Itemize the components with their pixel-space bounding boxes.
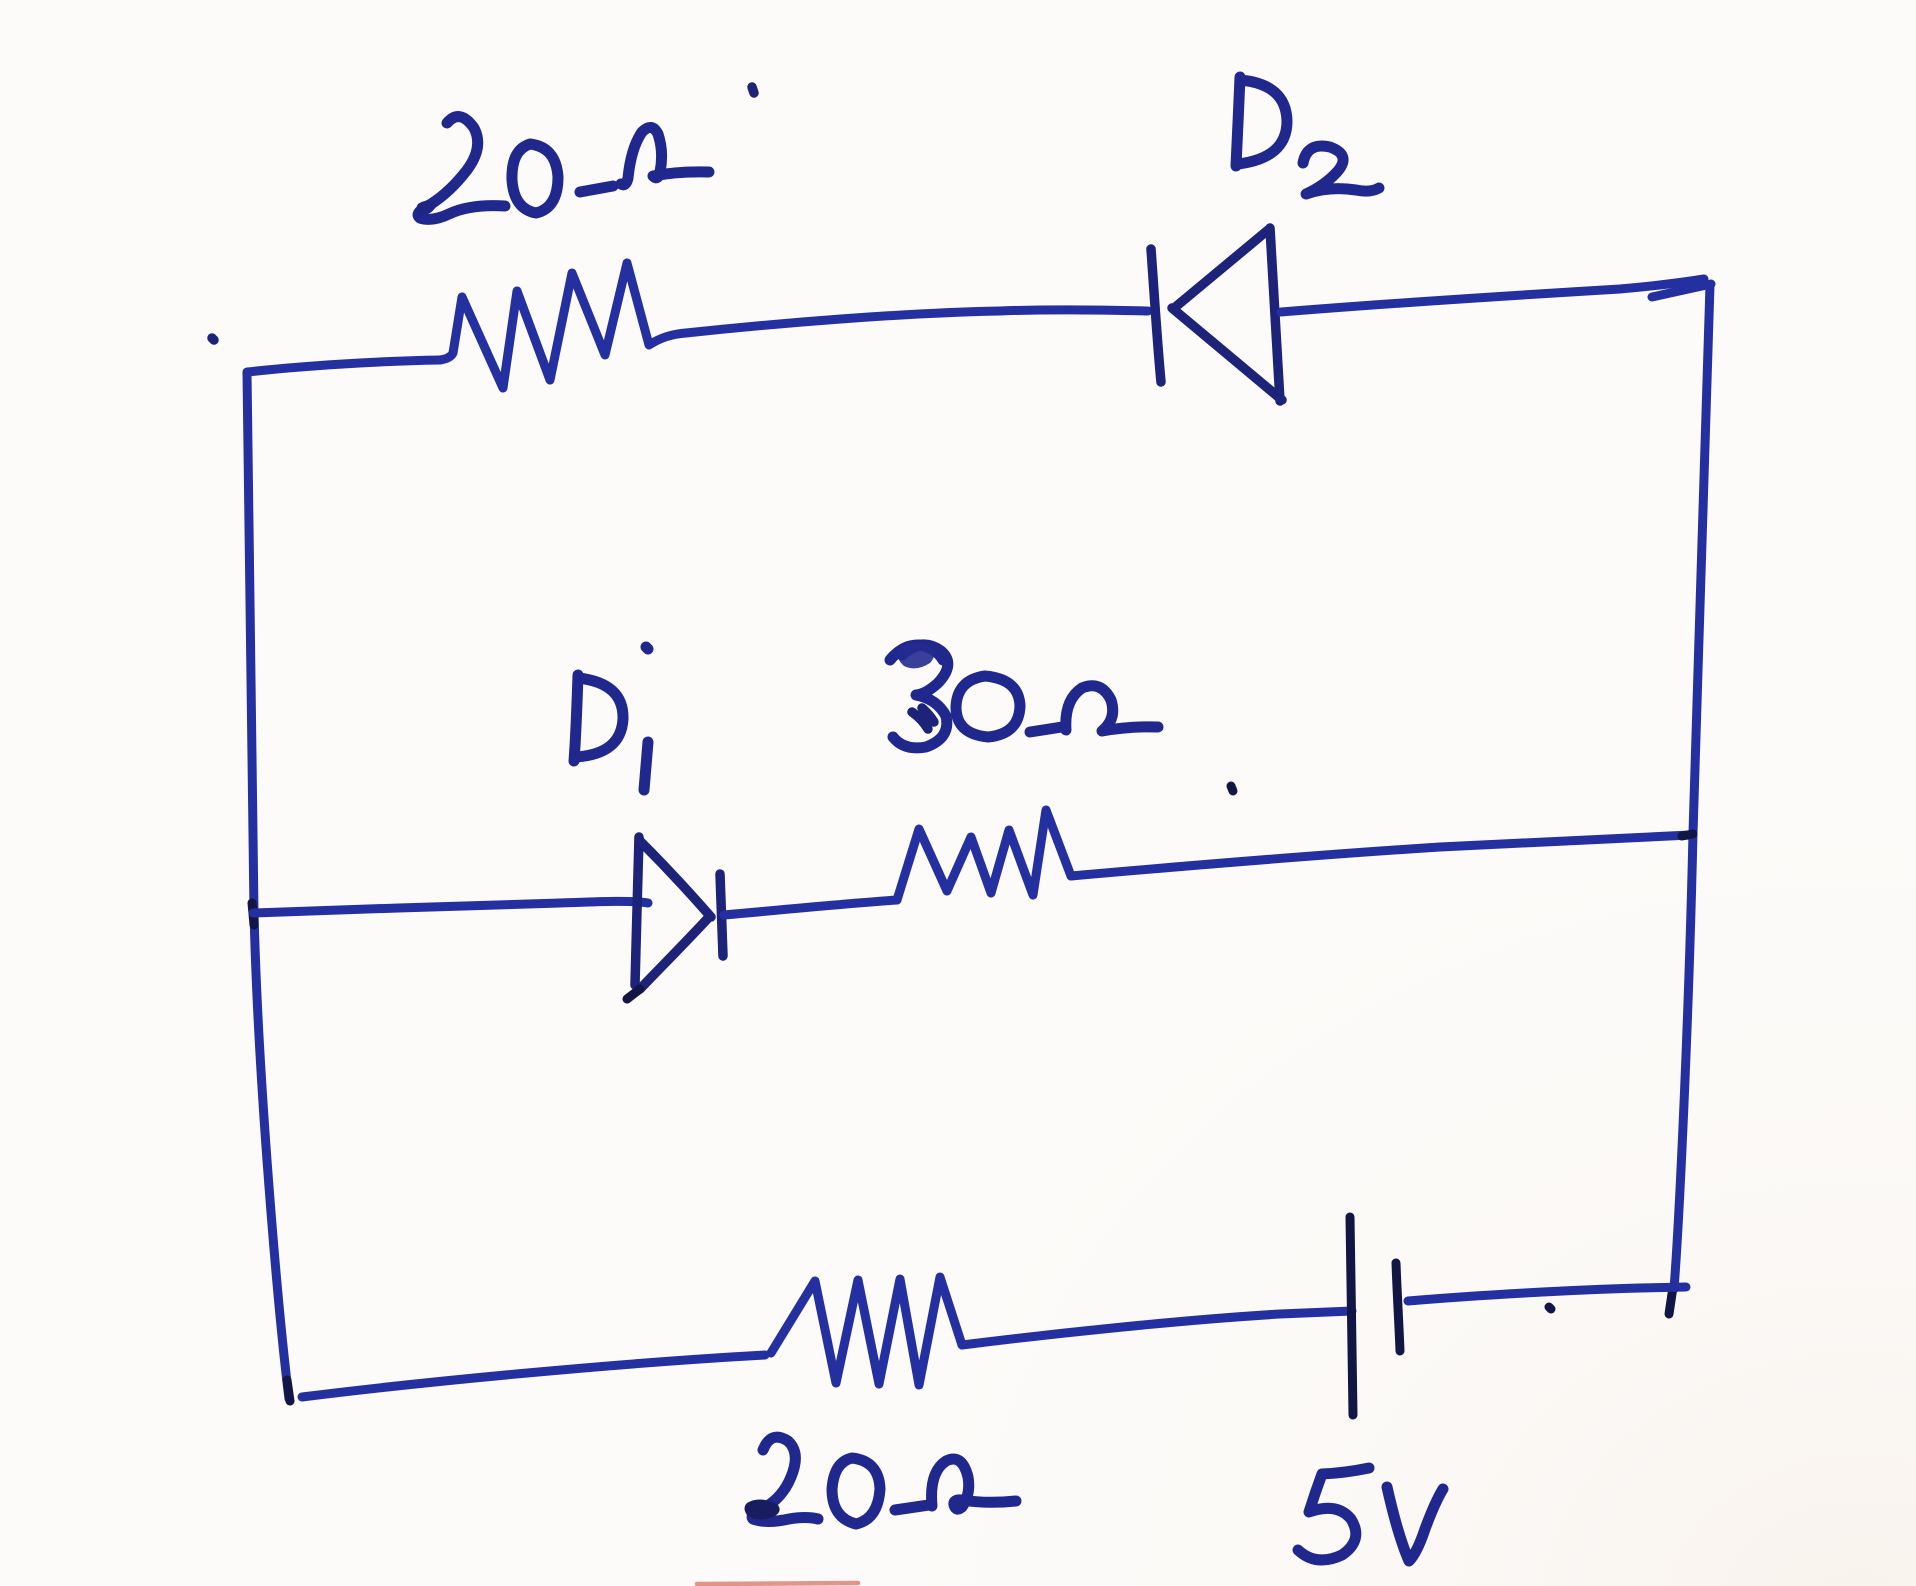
label 20ohm (bottom) [745, 1437, 1017, 1524]
node: stray dot left [212, 338, 214, 340]
diode D1 anode bar [635, 837, 639, 985]
wire: middle right to junction [1071, 835, 1690, 876]
diode D1 triangle [640, 841, 711, 989]
label D2 [1236, 77, 1379, 194]
wire: middle branch left [253, 901, 648, 913]
wire: top right to corner [1281, 279, 1704, 312]
red mark at bottom edge [697, 1583, 858, 1584]
wire: bottom right from battery to corner [1408, 1287, 1686, 1301]
diode D1 tick [627, 989, 640, 999]
battery short plate [1396, 1263, 1400, 1351]
node: middle-left junction [252, 903, 254, 925]
wire: left vertical upper [247, 372, 254, 912]
wire: left vertical lower [254, 912, 289, 1399]
wire: right vertical [1674, 285, 1710, 1289]
label 30ohm [890, 642, 1158, 748]
wire: middle between D1 and resistor [724, 900, 897, 915]
wire: retrace stroke near top-right corner [1652, 284, 1711, 297]
label D1 [574, 647, 648, 790]
node: stray dot right of 30ohm [1231, 786, 1233, 791]
node: bottom-left dark tip [287, 1380, 290, 1401]
resistor 20ohm (top) [440, 263, 686, 388]
diode D1 cathode bar [720, 874, 723, 956]
node: stray dot below bottom-right wire [1549, 1307, 1551, 1309]
wire: top-left horizontal from corner to resistor [248, 360, 440, 372]
wire: bottom middle to battery [962, 1311, 1352, 1345]
resistor 30ohm (middle) [897, 810, 1071, 900]
wire: bottom left [302, 1355, 765, 1397]
node: stray dot top middle [752, 87, 754, 93]
diode D2 cathode bar [1151, 249, 1161, 382]
battery long plate [1350, 1217, 1353, 1415]
node: middle-right junction [1682, 834, 1693, 836]
diode D2 triangle [1172, 228, 1282, 401]
resistor 20ohm (bottom) [771, 1277, 962, 1385]
label 20ohm (top) [417, 117, 709, 220]
wire: top middle between resistor and diode D2 [686, 310, 1148, 333]
node: bottom-right tick [1669, 1287, 1673, 1314]
label 5V [1298, 1468, 1443, 1561]
